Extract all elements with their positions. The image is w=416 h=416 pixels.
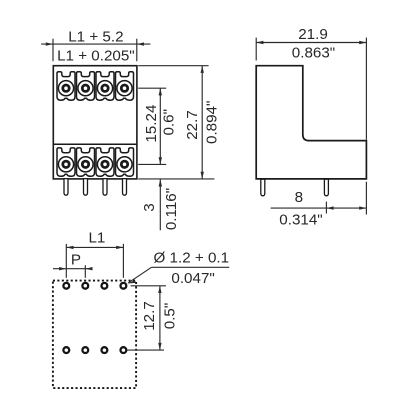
dimension L1 lines — [66, 244, 123, 278]
inner shelf line — [53, 143, 137, 145]
terminal pole 1 bottom row — [57, 148, 75, 176]
solder pin right side view — [324, 179, 328, 196]
PCB outline dashed — [53, 281, 136, 389]
svg-text:3: 3 — [141, 203, 158, 211]
svg-text:0.047": 0.047" — [171, 270, 214, 287]
connector body front view — [53, 66, 137, 179]
hole 1 row 1 — [63, 283, 69, 289]
dimension L1+5.2 arrows — [46, 42, 144, 45]
dimension 12.7 lines — [127, 286, 166, 350]
dimension 12.7 arrows — [158, 286, 161, 350]
dimension P arrows — [59, 267, 92, 270]
svg-text:L1: L1 — [88, 229, 105, 246]
svg-text:Ø 1.2 + 0.1: Ø 1.2 + 0.1 — [154, 249, 230, 266]
svg-text:L1 + 0.205": L1 + 0.205" — [57, 48, 135, 65]
svg-text:12.7: 12.7 — [141, 301, 158, 331]
svg-text:L1 + 5.2: L1 + 5.2 — [68, 28, 123, 45]
terminal pole 4 top row — [116, 72, 134, 100]
dimension 22.7 arrows — [201, 66, 204, 179]
svg-text:0.863": 0.863" — [292, 45, 335, 62]
terminal pole 4 bottom row — [116, 148, 134, 176]
svg-text:P: P — [71, 252, 81, 269]
dimension 8 extension lines — [271, 182, 367, 215]
solder pin 2 front — [84, 179, 88, 196]
hole 2 row 2 — [82, 347, 88, 353]
dimension 15.24 extension lines — [138, 88, 166, 164]
terminal pole 3 bottom row — [96, 148, 114, 176]
svg-text:0.6": 0.6" — [160, 109, 177, 136]
dimension L1 arrows — [66, 246, 123, 249]
terminal pole 2 top row — [77, 72, 95, 100]
hole diameter callout leader — [128, 267, 229, 283]
hole 3 row 2 — [102, 347, 108, 353]
hole 3 row 1 — [102, 283, 108, 289]
hole diameter leader arrow — [127, 280, 136, 283]
svg-text:0.894": 0.894" — [203, 101, 220, 144]
dimension 21.9 lines — [256, 38, 366, 140]
svg-text:21.9: 21.9 — [298, 26, 328, 43]
dimension 22.7 extension lines — [138, 66, 214, 179]
dimension P lines — [53, 265, 91, 278]
terminal pole 2 bottom row — [77, 148, 95, 176]
hole 4 row 1 — [121, 283, 127, 289]
dimension 8 arrows — [326, 206, 366, 209]
svg-text:8: 8 — [295, 189, 303, 206]
svg-text:0.5": 0.5" — [161, 303, 178, 330]
dimension 3 arrow — [159, 179, 162, 186]
connector body side view L-profile — [256, 66, 366, 179]
terminal pole 1 top row — [57, 72, 75, 100]
hole 4 row 2 — [121, 347, 127, 353]
dimension L1+5.2 line — [41, 39, 150, 62]
solder pin 4 front — [123, 179, 127, 196]
terminal pole 3 top row — [96, 72, 114, 100]
dimension 21.9 arrows — [256, 41, 366, 44]
svg-text:15.24: 15.24 — [143, 105, 160, 143]
solder pin 3 front — [103, 179, 107, 196]
dimension 15.24 arrows — [159, 88, 162, 164]
solder pin 1 front — [64, 179, 68, 196]
svg-text:0.314": 0.314" — [279, 211, 322, 228]
svg-text:0.116": 0.116" — [163, 188, 180, 230]
dimension 3 line — [159, 179, 161, 230]
hole 2 row 1 — [82, 283, 88, 289]
svg-text:22.7: 22.7 — [184, 110, 201, 140]
hole 1 row 2 — [63, 347, 69, 353]
solder pin left side view — [261, 179, 265, 196]
